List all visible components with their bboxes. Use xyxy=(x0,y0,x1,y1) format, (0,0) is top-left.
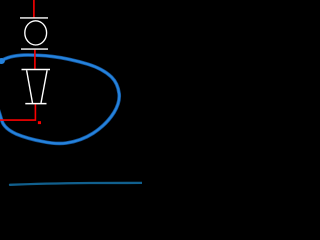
diode symbol: left slope of V xyxy=(27,70,33,103)
annotation stroke (blue pen line at bottom, part of loop off-screen) xyxy=(10,183,142,185)
lamp symbol: bulb circle xyxy=(25,21,47,45)
wire (red, lamp to diode) xyxy=(34,50,36,69)
annotation stroke (blue pen loop around circuit) xyxy=(0,55,119,144)
canvas background xyxy=(0,0,142,189)
lamp symbol: bottom plate xyxy=(21,48,48,50)
diode symbol: right slope of V xyxy=(41,70,47,103)
wire (red, diode down then left to edge) xyxy=(0,104,35,120)
diode symbol: bottom bar (cathode) xyxy=(25,103,46,105)
lamp symbol: top plate xyxy=(20,17,48,19)
wire (red, top feed into lamp) xyxy=(33,0,35,17)
annotation stroke start blob (pen-down) xyxy=(0,58,5,64)
junction dot (red square terminal) xyxy=(38,121,41,124)
diode symbol: top bar (anode) xyxy=(22,69,51,71)
